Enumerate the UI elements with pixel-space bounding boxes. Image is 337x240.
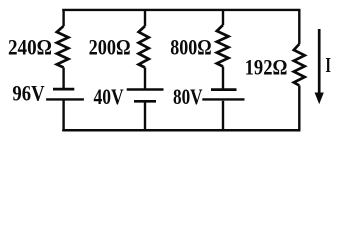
svg-text:96V: 96V <box>12 80 44 105</box>
svg-text:800Ω: 800Ω <box>170 34 211 59</box>
svg-text:80V: 80V <box>173 84 203 109</box>
svg-text:40V: 40V <box>94 84 124 109</box>
svg-text:192Ω: 192Ω <box>245 54 288 79</box>
svg-text:I: I <box>325 53 331 77</box>
svg-text:200Ω: 200Ω <box>89 34 131 59</box>
svg-text:240Ω: 240Ω <box>8 34 52 59</box>
